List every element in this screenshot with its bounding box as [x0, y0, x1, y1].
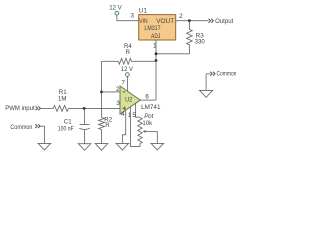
svg-text:12 V: 12 V: [121, 66, 134, 73]
capacitor C1 top lead: [84, 108, 86, 124]
op-amp U2 body: [120, 86, 140, 114]
pin 7 wire (U2 V+): [127, 76, 129, 91]
junction ADJ/R3: [155, 52, 158, 55]
svg-text:1M: 1M: [58, 96, 66, 103]
svg-text:100 nF: 100 nF: [58, 125, 74, 132]
wire R1 to pin 3 (U2): [68, 107, 120, 109]
wire 12V terminal to VIN pin: [117, 15, 139, 21]
ground (pin 4): [115, 143, 129, 150]
resistor R1: [53, 106, 68, 112]
connector chevron Output: [209, 19, 214, 23]
svg-text:Output: Output: [215, 18, 233, 25]
svg-text:VOUT: VOUT: [156, 18, 174, 25]
wire Common right to ground: [205, 74, 207, 91]
wire ADJ pin down to op-amp output node: [155, 40, 157, 100]
pin 4 wire (U2 V-) to ground: [122, 110, 125, 143]
resistor R4: [102, 58, 157, 64]
ground (C1): [78, 144, 92, 151]
svg-text:12 V: 12 V: [109, 5, 122, 12]
svg-text:LM741: LM741: [141, 104, 161, 111]
svg-text:R: R: [105, 122, 110, 129]
wire wiper to ground: [156, 131, 158, 143]
svg-text:Common: Common: [10, 124, 32, 131]
svg-text:U1: U1: [139, 8, 148, 15]
wire PWM input to R1: [41, 107, 54, 109]
svg-text:1: 1: [128, 112, 132, 119]
junction R1/C1: [83, 107, 86, 110]
wire pin 6 output to ADJ net: [140, 99, 156, 101]
regulator U1 LM317 body: [139, 15, 176, 40]
plus sign (non-inverting input): [123, 107, 126, 110]
ground (Common left): [37, 143, 51, 150]
pin 5 wire (U2 offset null): [136, 103, 140, 117]
junction inverting input: [100, 91, 103, 94]
pin 1 wire (U2 offset null): [130, 107, 140, 147]
ground (Common right): [199, 90, 214, 97]
minus sign (inverting input): [123, 91, 126, 93]
connector chevron Common left: [35, 124, 40, 128]
svg-text:3: 3: [116, 100, 120, 107]
svg-text:LM317: LM317: [144, 25, 160, 32]
svg-text:2: 2: [116, 86, 120, 93]
svg-text:VIN: VIN: [139, 18, 147, 25]
svg-text:U2: U2: [125, 96, 133, 103]
svg-text:10k: 10k: [142, 120, 153, 127]
svg-text:330: 330: [195, 38, 206, 45]
connector chevron PWM input: [36, 106, 41, 110]
svg-text:ADJ: ADJ: [151, 33, 160, 40]
ground (wiper): [150, 143, 164, 150]
ground (R2): [95, 144, 109, 151]
svg-text:5: 5: [132, 112, 136, 119]
svg-text:7: 7: [121, 80, 125, 87]
potentiometer Pot 10k body: [138, 118, 142, 147]
wire pin 2 (U2 inverting input): [102, 91, 121, 93]
terminal 12V supply (regulator input): [115, 11, 119, 15]
svg-text:6: 6: [145, 93, 149, 100]
capacitor C1 bottom lead: [84, 130, 86, 144]
svg-text:4: 4: [121, 111, 125, 118]
svg-text:3: 3: [130, 13, 134, 20]
resistor R2: [99, 117, 105, 143]
wire R4 to inverting input node and down to R2: [101, 61, 103, 117]
svg-text:PWM input: PWM input: [5, 105, 35, 112]
capacitor C1 plates: [79, 124, 90, 129]
resistor R3: [187, 21, 193, 54]
terminal 12V supply (op-amp): [126, 73, 130, 77]
connector Common (right): [206, 73, 210, 75]
svg-text:Common: Common: [217, 71, 237, 78]
junction ADJ/R4: [155, 59, 158, 62]
connector chevron Common right: [210, 72, 215, 76]
svg-text:2: 2: [179, 13, 183, 20]
connector Common (left) elbow: [40, 126, 44, 143]
pot wiper arrow: [145, 130, 157, 132]
wire VOUT to Output terminal: [176, 20, 209, 22]
wire R3 bottom to ADJ node: [156, 53, 189, 55]
junction VOUT/R3: [188, 19, 191, 22]
svg-text:R: R: [126, 49, 131, 56]
